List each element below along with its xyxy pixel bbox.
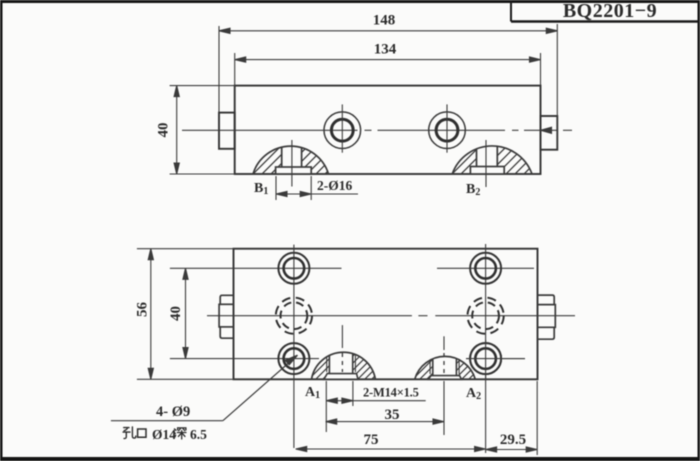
left tab bottom view (nut profile) <box>219 295 233 338</box>
dimension 40 (bottom view) <box>183 268 188 358</box>
B2 centerline <box>485 140 487 187</box>
svg-text:29.5: 29.5 <box>500 432 526 448</box>
A2 centerline <box>443 336 445 350</box>
B2 counterbore rect <box>470 167 504 175</box>
B1 centerline <box>291 140 293 187</box>
block outline bottom view <box>234 249 538 380</box>
column centerline left <box>293 245 295 448</box>
port A2 dome (bottom view) <box>403 336 516 389</box>
svg-text:75: 75 <box>364 432 379 448</box>
hole circle top view left (A1 position) <box>324 104 361 152</box>
A2 thread lines <box>429 348 431 374</box>
B1 counterbore rect <box>276 167 312 174</box>
right tab top view <box>541 116 558 150</box>
B1 slot <box>282 134 302 167</box>
block outline top view <box>235 86 541 174</box>
centerline top view <box>182 127 572 133</box>
svg-text:Ø14: Ø14 <box>152 427 176 442</box>
dimension 29.5 <box>486 381 538 455</box>
svg-text:2-M14×1.5: 2-M14×1.5 <box>363 386 419 400</box>
hatching A1 <box>299 339 419 389</box>
dimension 2-M14x1.5 <box>326 381 425 432</box>
dimension 134 <box>235 53 541 86</box>
row line bottom (through lower holes) <box>170 358 525 360</box>
middle centerline bottom view <box>207 315 575 317</box>
mounting hole top-right <box>470 253 501 284</box>
svg-text:4- Ø9: 4- Ø9 <box>156 404 190 420</box>
dimension 56 <box>137 249 234 380</box>
dimension 40 (top view) <box>170 86 235 174</box>
B2 dome arc <box>452 146 532 174</box>
svg-text:BQ2201−9: BQ2201−9 <box>563 0 657 22</box>
A1 slot <box>329 344 352 374</box>
dimension 35 <box>326 381 444 435</box>
hatching B1 <box>243 134 374 184</box>
svg-text:56: 56 <box>135 302 151 318</box>
A2 dome arc <box>415 356 476 379</box>
redraw bottom-right hole over A2 dome <box>466 340 525 379</box>
label 孔口 (drawn glyphs: kong kou) <box>123 427 146 439</box>
A2 counterbore trapezoid <box>429 376 462 380</box>
mounting hole top-left <box>278 253 309 284</box>
B2 slot <box>477 134 498 167</box>
A2 slot <box>433 348 457 376</box>
port B2 dome (top view) <box>442 134 573 187</box>
port A1 dome (bottom view) <box>299 325 419 389</box>
hatching B2 <box>442 134 573 184</box>
svg-text:40: 40 <box>168 306 184 321</box>
hidden hole (dashed) left <box>276 298 312 334</box>
title box <box>511 0 700 22</box>
hidden hole (dashed) right <box>468 298 504 334</box>
svg-text:148: 148 <box>373 13 396 29</box>
A1 dome arc <box>312 352 376 379</box>
leader 4-Ø9 <box>111 355 298 421</box>
centerline arrow at right tab <box>541 127 552 133</box>
svg-text:2-Ø16: 2-Ø16 <box>317 178 352 193</box>
B1 dome arc <box>253 146 329 174</box>
hole circle top view right (A2 position) <box>429 104 466 152</box>
row line top (through upper holes) <box>170 267 534 269</box>
label 深 (drawn glyph: shen) <box>174 428 186 439</box>
mounting hole bottom-right <box>470 343 501 374</box>
A1 centerline (solid above, dashed in slot) <box>341 325 343 348</box>
A1 counterbore trapezoid <box>324 374 358 380</box>
svg-text:40: 40 <box>156 123 172 138</box>
svg-text:134: 134 <box>374 42 397 58</box>
dimension 2-Ø16 <box>276 176 358 200</box>
hatching A2 <box>403 339 516 389</box>
left tab top view <box>219 113 235 149</box>
mounting hole bottom-left <box>278 343 309 374</box>
port B1 dome (top view) <box>243 134 374 187</box>
right tab bottom view (nut profile) <box>538 295 556 339</box>
A1 thread lines <box>326 344 328 372</box>
column centerline right <box>485 244 487 453</box>
svg-text:35: 35 <box>385 407 400 423</box>
dimension 148 <box>219 24 557 150</box>
svg-text:6.5: 6.5 <box>190 427 207 442</box>
dimension 75 <box>296 446 486 451</box>
